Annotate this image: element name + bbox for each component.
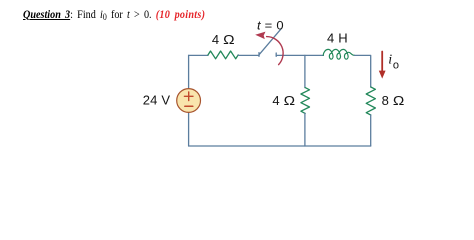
current arrowhead <box>379 71 386 79</box>
resistor R3 8ohm vertical <box>366 87 375 115</box>
inductor L1 4H coil <box>323 49 354 59</box>
voltage source V1 24V circle <box>177 89 201 113</box>
svg-text:i: i <box>388 53 392 68</box>
wire: middle branch top, node to R2 <box>304 55 306 87</box>
voltage source plus sign <box>184 92 193 101</box>
svg-text:4 Ω: 4 Ω <box>272 93 295 108</box>
wire: switch right contact to inductor, passing node at middle branch <box>276 54 323 56</box>
svg-text:4 H: 4 H <box>327 30 348 45</box>
svg-text:24 V: 24 V <box>143 93 171 108</box>
wire: inductor to top-right corner, down right branch to R3 <box>355 55 371 87</box>
svg-text:8 Ω: 8 Ω <box>382 93 405 108</box>
resistor R1 4ohm horizontal <box>208 51 238 59</box>
switch left contact tick <box>258 53 260 57</box>
switch right contact tick <box>275 53 277 56</box>
wire: left branch top, corner down to source <box>188 55 190 88</box>
voltage source minus sign <box>185 105 193 107</box>
switch arc arrowhead <box>255 32 265 39</box>
wire: bottom rail <box>189 145 371 147</box>
wire: R2 to bottom rail node <box>304 113 306 146</box>
switch blade (open, t=0) <box>259 29 281 55</box>
wire: top-left segment from corner to R1 <box>189 54 208 56</box>
wire: left branch bottom, source to bottom-left corner <box>188 113 190 146</box>
title: Question 3: Find i_0 for t > 0. (10 points) <box>23 8 205 21</box>
svg-text:o: o <box>393 59 399 71</box>
svg-text:4 Ω: 4 Ω <box>212 32 235 47</box>
switch opening arc (red arrow) <box>267 37 284 65</box>
svg-text:t = 0: t = 0 <box>257 18 284 32</box>
resistor R2 4ohm vertical <box>301 88 310 114</box>
current arrow i_o (red, downward) <box>381 52 383 72</box>
wire: R3 to bottom-right corner <box>370 115 372 146</box>
wire: R1 to switch left contact <box>238 54 259 56</box>
